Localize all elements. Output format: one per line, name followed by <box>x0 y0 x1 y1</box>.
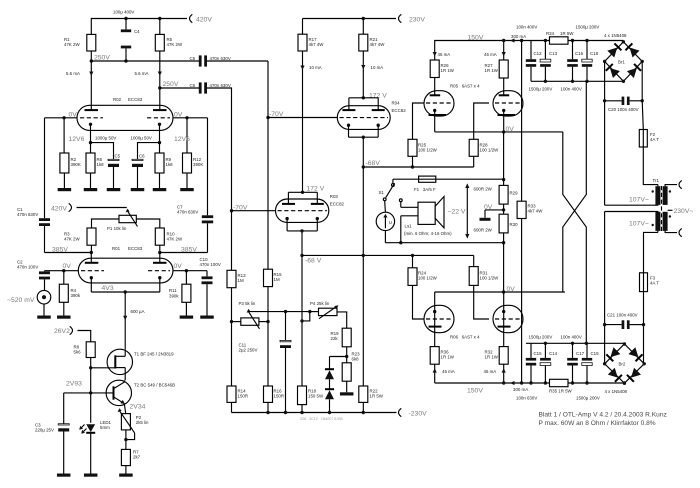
wire 385V left <box>45 252 92 254</box>
svg-text:R11: R11 <box>169 288 177 293</box>
svg-text:45 mA: 45 mA <box>438 52 451 57</box>
switch S1 <box>392 179 394 183</box>
capacitor C13 <box>544 41 546 60</box>
svg-text:T1 BF 245 / 2N3819: T1 BF 245 / 2N3819 <box>134 351 174 356</box>
bridge Br1 outline <box>605 42 643 82</box>
svg-text:12V6: 12V6 <box>69 136 85 143</box>
diode Br1 bottom-left <box>606 64 620 78</box>
resistor R35 <box>550 379 569 386</box>
resistor R16 <box>264 386 273 402</box>
grid dashes R04 <box>340 117 389 119</box>
svg-text:390k: 390k <box>169 293 179 298</box>
wire 385V right <box>159 245 161 252</box>
resistor R27 <box>502 52 506 56</box>
wire P4 right to R19 <box>337 312 347 328</box>
Tr1 primary terminals <box>665 185 677 187</box>
anode bars R03 <box>282 203 295 205</box>
svg-text:R02: R02 <box>113 97 122 102</box>
wire cathodes to 0V output rail <box>434 110 436 131</box>
resistor R7 <box>121 449 130 465</box>
capacitor C1 on left rail <box>44 118 46 218</box>
resistor R19 <box>342 328 351 347</box>
svg-text:150V: 150V <box>467 387 483 394</box>
resistor R28 <box>469 139 478 156</box>
svg-text:220µ 25V: 220µ 25V <box>35 428 54 433</box>
svg-text:390K: 390K <box>71 162 81 167</box>
svg-text:26V2: 26V2 <box>54 328 70 335</box>
svg-text:R29: R29 <box>510 191 519 196</box>
resistor R32 <box>499 347 508 365</box>
diode D1 <box>325 368 334 370</box>
svg-text:47K 2W: 47K 2W <box>64 237 80 242</box>
wire R30 down to 0V lower rail <box>503 233 505 292</box>
svg-text:230V: 230V <box>409 17 425 24</box>
wire lower cap bank top <box>526 342 624 344</box>
node 172V R03 <box>301 191 304 194</box>
svg-text:R34: R34 <box>546 31 555 36</box>
resistor R22 <box>359 386 368 402</box>
svg-text:T2 BC 549 / BC546B: T2 BC 549 / BC546B <box>134 383 175 388</box>
capacitor C12 <box>530 41 532 60</box>
capacitor C15 <box>530 343 532 358</box>
capacitor C21 <box>622 320 625 329</box>
svg-text:2k5 lin: 2k5 lin <box>136 420 149 425</box>
wire lower secondary bottom to F3 <box>644 232 658 272</box>
wire 0V left of R02 <box>45 117 78 119</box>
capacitor C5e cathode <box>108 159 119 160</box>
capacitor C5 coupling <box>199 55 202 66</box>
svg-text:230V~: 230V~ <box>674 208 694 215</box>
capacitor C6e cathode <box>132 159 143 160</box>
capacitor C19 <box>586 343 588 358</box>
svg-text:385V: 385V <box>52 247 68 254</box>
svg-text:45 mA: 45 mA <box>484 369 497 374</box>
svg-text:Br2: Br2 <box>619 362 626 367</box>
wire 230V rail <box>303 18 397 20</box>
svg-text:1500µ 200V: 1500µ 200V <box>529 86 553 91</box>
node 250V second <box>158 86 161 89</box>
svg-text:C20 100n 400V: C20 100n 400V <box>608 107 639 112</box>
wire lower secondary top <box>605 211 658 213</box>
svg-text:Ls1: Ls1 <box>405 224 413 229</box>
svg-text:4V3: 4V3 <box>102 285 114 292</box>
input jack connector <box>37 290 51 304</box>
wire -68V rail upper <box>363 166 473 168</box>
resistor R15 <box>267 118 269 270</box>
wire 0V lower rail <box>435 291 565 293</box>
Tr1 core dashes <box>661 186 663 231</box>
wire F2 to Tr1 upper secondary <box>643 147 658 185</box>
svg-text:100n 400V: 100n 400V <box>561 335 582 340</box>
potentiometer P2 <box>121 414 130 430</box>
fuse F3 <box>643 273 645 292</box>
svg-text:P3 5k lin: P3 5k lin <box>239 301 256 306</box>
svg-text:4 x 1N5408: 4 x 1N5408 <box>604 33 627 38</box>
wire 26V2 to R8 <box>78 331 91 342</box>
svg-text:~22 V: ~22 V <box>448 208 466 215</box>
svg-text:-68 V: -68 V <box>305 258 322 265</box>
wire 0V right of R02 <box>173 117 208 119</box>
anode bracket R04 <box>349 97 378 99</box>
svg-text:47K 2W: 47K 2W <box>167 237 183 242</box>
ground R11 <box>185 302 187 315</box>
speaker Ls1 <box>418 202 435 224</box>
wire cap bank bottom to Br1 minus <box>531 80 623 82</box>
grid wire right tube from R28 <box>474 103 489 139</box>
svg-text:C5: C5 <box>115 154 121 159</box>
svg-text:420V: 420V <box>51 206 67 213</box>
svg-text:C6: C6 <box>190 83 196 88</box>
resistor R21 <box>362 19 364 35</box>
resistor R12 <box>186 118 188 153</box>
hook P4 left to -68V rail <box>302 312 310 321</box>
svg-text:P1 10k lin: P1 10k lin <box>107 226 127 231</box>
current arrow 300mA lower <box>510 381 514 385</box>
diode Br2 top-left <box>606 347 620 361</box>
wire 150V rail lower <box>435 382 625 384</box>
LED1 <box>86 424 95 432</box>
svg-text:600 µA: 600 µA <box>131 309 145 314</box>
Tr1 secondary winding upper <box>655 186 660 205</box>
ground C6e <box>137 167 139 188</box>
svg-text:4A T: 4A T <box>650 137 659 142</box>
wire output rail to lower cap bank crossover A <box>563 132 587 343</box>
wire P1 left to R3 <box>92 219 120 228</box>
svg-text:C12: C12 <box>534 51 543 56</box>
wire grid right R01 <box>173 270 207 272</box>
diode Br2 bottom-left <box>608 368 622 382</box>
svg-text:-230V: -230V <box>409 411 428 418</box>
svg-text:0V: 0V <box>174 263 183 270</box>
wire voltmeter to return rail <box>384 231 386 243</box>
resistor R17 <box>302 19 304 35</box>
node -70V upper <box>266 116 269 119</box>
resistor R2 <box>63 118 65 153</box>
svg-text:C19: C19 <box>591 351 600 356</box>
svg-text:100 1/2W: 100 1/2W <box>418 276 438 281</box>
bridge Br2 outline <box>605 344 645 383</box>
ground R12 <box>186 173 188 188</box>
resistor R34 <box>550 37 569 44</box>
svg-text:C18: C18 <box>590 51 599 56</box>
svg-text:390K: 390K <box>193 162 203 167</box>
resistor R26 <box>433 52 437 56</box>
svg-text:1500µ 200V: 1500µ 200V <box>576 25 600 30</box>
resistor R6 <box>90 143 92 153</box>
wire P3 wiper rail <box>248 311 310 313</box>
svg-text:150R: 150R <box>238 394 249 399</box>
cathode bars R06 <box>429 326 442 328</box>
Tr1 primary center stub 230V <box>668 209 673 211</box>
svg-text:4k7 4W: 4k7 4W <box>528 209 544 214</box>
svg-text:385V: 385V <box>181 247 197 254</box>
grid dashes R02 <box>80 117 103 119</box>
resistor R14 <box>227 386 236 402</box>
svg-text:2µ2 250V: 2µ2 250V <box>239 348 258 353</box>
svg-text:47K 2W: 47K 2W <box>167 42 183 47</box>
resistor R10 <box>155 228 164 245</box>
svg-text:1R 1W: 1R 1W <box>485 68 499 73</box>
Tr1 primary winding lower <box>663 212 668 231</box>
svg-text:470n 630V: 470n 630V <box>210 83 231 88</box>
svg-text:P max. 60W an 8 Ohm / Klirrfak: P max. 60W an 8 Ohm / Klirrfaktor 0.8% <box>539 420 656 427</box>
svg-text:47K 2W: 47K 2W <box>64 42 80 47</box>
connector 230V <box>399 14 402 22</box>
svg-text:4 x 1N5408: 4 x 1N5408 <box>605 389 628 394</box>
svg-text:45 mA: 45 mA <box>484 52 497 57</box>
ground C5e <box>113 167 115 188</box>
grid dashes R05 <box>426 102 452 104</box>
resistor R25 <box>408 139 417 156</box>
capacitor C17 <box>572 343 574 358</box>
tube R03 ECC82 <box>276 199 329 222</box>
svg-text:1R 1W: 1R 1W <box>441 355 455 360</box>
resistor R29 <box>503 132 505 186</box>
svg-text:1R 5W: 1R 5W <box>560 31 574 36</box>
svg-text:R04: R04 <box>392 101 401 106</box>
svg-text:2V93: 2V93 <box>66 381 82 388</box>
svg-text:470n 100V: 470n 100V <box>200 262 221 267</box>
ground tap 0V <box>485 209 504 211</box>
grid wire lower left tube <box>413 285 425 319</box>
svg-text:Br1: Br1 <box>618 59 625 64</box>
ground R20 <box>346 381 348 392</box>
svg-text:22k: 22k <box>331 336 339 341</box>
svg-text:C21 100n 400V: C21 100n 400V <box>607 312 638 317</box>
anode pins R06 <box>433 310 436 313</box>
node 172V upper <box>362 96 365 99</box>
svg-text:1k8: 1k8 <box>97 162 105 167</box>
svg-text:U: U <box>389 220 392 225</box>
tube R02 ECC83 <box>77 105 173 130</box>
fuse F1 <box>419 178 436 180</box>
svg-text:470n 100V: 470n 100V <box>17 265 38 270</box>
diode Br1 top-right <box>625 43 639 57</box>
svg-text:~520 mV: ~520 mV <box>7 297 35 304</box>
svg-text:0V: 0V <box>506 126 515 133</box>
wire R21 to 172V node <box>362 51 364 98</box>
capacitor C18 <box>586 41 588 60</box>
svg-text:150 5W: 150 5W <box>308 394 324 399</box>
resistor R9 <box>159 143 161 153</box>
wire R14 to bus <box>231 402 233 412</box>
capacitor C14 <box>544 343 546 358</box>
resistor R31 <box>473 255 475 266</box>
capacitor C11 <box>285 312 287 341</box>
svg-text:600R 2W: 600R 2W <box>474 228 493 233</box>
capacitor C20 <box>604 61 606 205</box>
svg-text:100 1/2W: 100 1/2W <box>480 148 500 153</box>
wire to diodes <box>330 356 347 358</box>
wire 0V output rail <box>435 131 563 133</box>
cathode pins R03 <box>285 217 288 220</box>
svg-text:4k7 4W: 4k7 4W <box>370 42 386 47</box>
resistor R36 <box>430 347 439 365</box>
ground R6 <box>90 173 92 188</box>
svg-text:1R 1W: 1R 1W <box>485 355 499 360</box>
connector -230V <box>399 408 402 416</box>
diode Br1 top-left <box>607 43 621 57</box>
svg-text:ECC83: ECC83 <box>128 97 143 102</box>
diode D2 <box>325 388 334 390</box>
svg-text:C15: C15 <box>534 351 543 356</box>
node P2 bottom <box>125 430 127 450</box>
node midpoint R29 R30 <box>503 204 505 214</box>
svg-text:1k8: 1k8 <box>166 162 174 167</box>
svg-text:4A T: 4A T <box>650 281 659 286</box>
anode bars R01 <box>85 262 99 264</box>
svg-text:1000µ 50V: 1000µ 50V <box>95 136 116 141</box>
svg-text:2V34: 2V34 <box>130 404 146 411</box>
svg-text:1500µ 200V: 1500µ 200V <box>529 335 553 340</box>
capacitor C3 <box>63 393 65 424</box>
svg-text:5k6: 5k6 <box>74 350 82 355</box>
svg-text:6k8: 6k8 <box>352 357 360 362</box>
svg-text:10 mA: 10 mA <box>309 65 322 70</box>
cathode bracket R01 4V3 <box>91 291 160 293</box>
svg-text:100µ 400V: 100µ 400V <box>113 10 134 15</box>
resistor R11 <box>185 271 187 285</box>
ground C3 <box>57 474 70 477</box>
svg-text:250V: 250V <box>163 81 179 88</box>
svg-text:R30: R30 <box>510 222 519 227</box>
wire anode1 with 5.6mA arrow <box>90 61 92 110</box>
svg-text:C5: C5 <box>190 56 196 61</box>
cathode bars R05 <box>429 114 447 116</box>
capacitor C4 <box>125 19 127 30</box>
wire C5 to -70V node <box>267 61 269 118</box>
tube R04 ECC82 <box>337 106 390 130</box>
anode bracket R03 <box>288 191 317 193</box>
svg-text:Z26 2C12 1N4007 8.5W: Z26 2C12 1N4007 8.5W <box>300 417 343 421</box>
svg-text:R06 6AS7 x 4: R06 6AS7 x 4 <box>450 335 480 340</box>
svg-text:C6: C6 <box>139 154 145 159</box>
connector 420V <box>190 14 193 22</box>
tube R06 left 6AS7 <box>424 305 454 332</box>
ground R7 <box>125 466 127 474</box>
svg-text:1000µ 50V: 1000µ 50V <box>131 136 152 141</box>
ground R4 <box>63 302 65 315</box>
svg-text:420V: 420V <box>196 17 212 24</box>
svg-text:100n 400V: 100n 400V <box>561 86 582 91</box>
capacitor C2 input <box>44 270 46 273</box>
wire -68V lower rail <box>302 254 474 256</box>
svg-text:470n 630V: 470n 630V <box>177 210 198 215</box>
svg-text:C13: C13 <box>549 51 558 56</box>
grid dashes R06 <box>426 318 452 320</box>
resistor R20 <box>342 363 351 381</box>
anode stubs R01 <box>90 253 92 263</box>
svg-text:P4 25k lin: P4 25k lin <box>310 301 330 306</box>
current arrow 300mA upper <box>510 38 514 42</box>
grid dashes R03 <box>278 210 328 212</box>
potentiometer P1 <box>119 215 136 222</box>
svg-text:10 mA: 10 mA <box>371 65 384 70</box>
svg-text:(min. 6 Ohm; 4-16 Ohm): (min. 6 Ohm; 4-16 Ohm) <box>404 231 452 236</box>
wire cathode R01 to T1 with 600uA <box>124 292 126 349</box>
capacitor C7 <box>207 118 209 216</box>
svg-text:-68V: -68V <box>366 160 381 167</box>
span arrow 22V <box>466 185 468 238</box>
ground input jack <box>43 304 45 316</box>
resistor R13 <box>230 209 233 212</box>
anode bars R04 <box>342 109 355 111</box>
resistor R8 <box>86 342 95 358</box>
wire 150V rail upper <box>435 41 624 61</box>
resistor R5 <box>155 34 164 51</box>
svg-text:Tr1: Tr1 <box>653 178 660 183</box>
svg-text:C17: C17 <box>576 351 585 356</box>
svg-text:1M: 1M <box>274 277 280 282</box>
anode pin left tube <box>430 94 441 96</box>
resistor R30 <box>499 214 508 233</box>
svg-text:R01: R01 <box>112 246 121 251</box>
svg-text:Blatt 1 / OTL-Amp V 4.2 / 20.4: Blatt 1 / OTL-Amp V 4.2 / 20.4.2003 R.Ku… <box>539 412 667 419</box>
wiper hook P2 <box>126 433 135 440</box>
svg-text:100 1/2W: 100 1/2W <box>418 148 438 153</box>
cathode bracket R04 <box>349 136 379 138</box>
svg-text:600R 2W: 600R 2W <box>474 187 493 192</box>
diode Br1 bottom-right <box>627 64 641 78</box>
svg-text:R03: R03 <box>330 194 339 199</box>
wire R04 cathode column to R22 <box>362 167 364 386</box>
ground R2 <box>63 173 65 188</box>
svg-text:390k: 390k <box>71 293 81 298</box>
wire fuse F1 feed <box>393 178 419 180</box>
svg-text:ECC82: ECC82 <box>392 108 407 113</box>
svg-text:470n 630V: 470n 630V <box>210 56 231 61</box>
resistor R3 <box>87 228 96 245</box>
svg-text:150R: 150R <box>274 394 285 399</box>
winding polarity dots <box>652 190 654 192</box>
svg-text:ECC83: ECC83 <box>128 246 143 251</box>
svg-text:R05 6AS7 x 4: R05 6AS7 x 4 <box>450 84 480 89</box>
capacitor C10 <box>206 271 208 277</box>
node 250V / wire <box>90 51 92 61</box>
grid wire lower right tube <box>474 285 489 319</box>
svg-text:C14: C14 <box>549 351 558 356</box>
svg-text:300 mA: 300 mA <box>511 34 526 39</box>
cathode pins R05 <box>433 109 436 112</box>
cathode junction wires <box>89 141 92 144</box>
svg-text:1M: 1M <box>238 278 244 283</box>
ground R9 <box>159 173 161 188</box>
wire 420V to P1 wiper <box>77 207 127 209</box>
cathode bracket R03 <box>287 230 317 232</box>
svg-text:100n 630V: 100n 630V <box>516 395 537 400</box>
svg-text:S1: S1 <box>379 190 385 195</box>
svg-text:5.6 mA: 5.6 mA <box>135 71 149 76</box>
Tr1 primary winding upper <box>663 186 668 205</box>
resistor R4 <box>63 271 65 285</box>
tube R05 left 6AS7 <box>424 91 454 116</box>
wire R13 to P3 left <box>231 288 233 386</box>
svg-text:150V: 150V <box>468 35 484 42</box>
wire P1 right to R10 <box>136 219 160 228</box>
tube R05 right 6AS7 <box>493 91 523 116</box>
diode Br2 top-right <box>628 347 642 361</box>
ground C10 <box>200 316 214 319</box>
wire upper secondary bottom to rectifier column <box>605 204 658 206</box>
anode pin right tube <box>499 94 510 96</box>
wire anode2 R5 down <box>159 51 161 110</box>
svg-text:C16: C16 <box>575 51 584 56</box>
wire cap bank minus to 0V lower crossover B <box>563 81 587 292</box>
svg-text:ECC82: ECC82 <box>330 202 345 207</box>
resistor R1 <box>159 19 161 35</box>
svg-text:1R 1W: 1R 1W <box>441 68 455 73</box>
wire -70V to R04 grid <box>268 117 337 119</box>
